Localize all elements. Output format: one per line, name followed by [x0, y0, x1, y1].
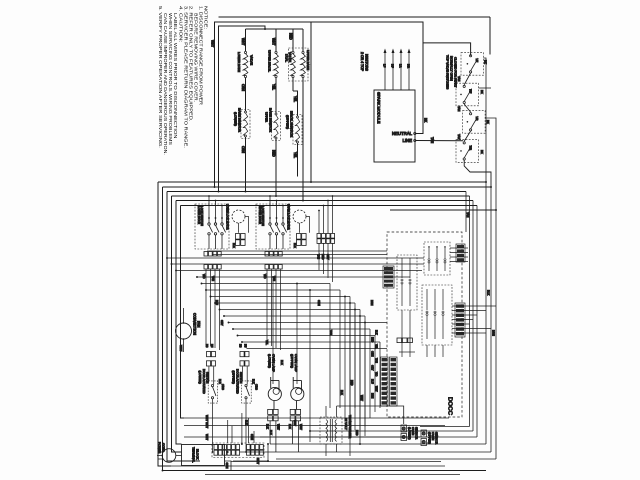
wire igniter2 down — [275, 139, 277, 196]
relay K2 — [397, 255, 417, 310]
wires middle connector down — [319, 244, 333, 283]
connector DOCC right mid — [455, 303, 465, 337]
connector lamp LOWER — [268, 409, 273, 414]
top valve switch LF — [461, 53, 484, 76]
svg-text:POWER: POWER — [158, 442, 162, 454]
junction valve bus — [264, 28, 266, 30]
lock motor LOWER — [226, 204, 249, 233]
power cord plug — [157, 442, 182, 462]
svg-text:CORD: CORD — [162, 443, 166, 453]
svg-text:OVEN: OVEN — [411, 427, 415, 435]
svg-text:BROIL IGNITOR: BROIL IGNITOR — [290, 111, 294, 138]
svg-text:WHT: WHT — [277, 424, 281, 430]
svg-text:GRY: GRY — [371, 365, 374, 371]
wire right bundle bottom corners — [240, 427, 496, 460]
svg-text:GRN: GRN — [225, 463, 229, 469]
lock motor UPPER — [287, 204, 310, 233]
svg-text:TAN: TAN — [457, 134, 461, 139]
svg-text:BAKE IGNITOR: BAKE IGNITOR — [269, 108, 273, 133]
svg-text:BLK: BLK — [269, 430, 273, 435]
svg-text:YEL: YEL — [293, 96, 297, 102]
wires DOCC right stubs — [450, 248, 496, 333]
wire line feed W2 — [219, 26, 266, 192]
connector strip B — [247, 445, 251, 450]
oven sensor UPPER — [421, 430, 438, 446]
labels misc bottom — [215, 300, 374, 436]
svg-text:NEUTRAL: NEUTRAL — [392, 131, 413, 136]
svg-text:WHT: WHT — [272, 38, 276, 45]
connector lock LOWER — [204, 252, 208, 257]
svg-text:BU: BU — [210, 344, 213, 348]
wire right bundle — [466, 182, 496, 459]
svg-text:YEL: YEL — [293, 152, 297, 158]
svg-text:RED: RED — [272, 150, 276, 157]
svg-text:WHT: WHT — [211, 40, 215, 47]
door actuated switch LOWER — [198, 344, 225, 453]
svg-text:RF: RF — [390, 64, 394, 68]
wires WHT horizontals — [184, 415, 449, 440]
wire dual valve joins — [292, 78, 294, 91]
svg-text:ORN: ORN — [241, 146, 245, 154]
wire bottom bus — [171, 444, 460, 475]
wire igniter1 down — [245, 137, 247, 192]
svg-text:BK: BK — [484, 60, 488, 64]
wire transformer to sensors — [337, 406, 404, 424]
igniter BAKE (LOWER) — [234, 108, 251, 139]
svg-text:DB: DB — [205, 344, 208, 348]
relay K1 — [424, 242, 450, 275]
svg-text:BLK: BLK — [266, 424, 270, 429]
svg-text:LOCK SWITCH: LOCK SWITCH — [261, 206, 265, 226]
connector DOCC bottom strips — [381, 357, 398, 406]
svg-text:GRY: GRY — [220, 320, 224, 326]
wires switch chain — [423, 43, 496, 210]
svg-text:TERMINAL: TERMINAL — [192, 447, 196, 463]
svg-text:FAN: FAN — [197, 321, 201, 328]
svg-text:IGNITORS: IGNITORS — [365, 54, 369, 72]
svg-text:ORG: ORG — [255, 384, 259, 390]
svg-text:(LOWER): (LOWER) — [198, 371, 202, 384]
svg-text:BRN: BRN — [371, 393, 374, 398]
svg-text:SPARK MODULE: SPARK MODULE — [377, 92, 382, 124]
svg-text:DUAL: DUAL — [285, 54, 289, 62]
relay K3 — [422, 285, 452, 345]
svg-text:RED: RED — [289, 33, 293, 40]
wire neutral feed W1 — [215, 22, 424, 187]
svg-text:TAN: TAN — [457, 106, 461, 111]
svg-text:WHT: WHT — [360, 395, 364, 401]
door lock switch LOWER — [195, 195, 229, 249]
valve UPPER BROIL — [268, 29, 279, 78]
svg-text:(UPPER): (UPPER) — [290, 354, 294, 368]
svg-text:TAN: TAN — [329, 330, 333, 335]
svg-text:LOWER LOCK MOTOR: LOWER LOCK MOTOR — [226, 204, 230, 230]
wire LINE to switches — [416, 140, 463, 142]
wire top line pair — [219, 16, 491, 18]
svg-text:CONVECTION: CONVECTION — [193, 313, 197, 336]
wire upper fan links — [207, 251, 387, 255]
svg-text:BRN: BRN — [492, 330, 496, 336]
svg-text:BK: BK — [480, 90, 484, 94]
svg-text:YEL: YEL — [265, 340, 269, 345]
svg-text:VIO: VIO — [263, 274, 267, 278]
svg-text:BU: BU — [244, 344, 247, 348]
svg-text:YEL: YEL — [272, 84, 276, 90]
svg-text:UPPER LOCK MOTOR: UPPER LOCK MOTOR — [287, 204, 291, 230]
notice text block — [158, 6, 208, 155]
igniter UPPER BAKE — [265, 108, 281, 141]
svg-text:BLK: BLK — [280, 360, 284, 365]
door lock switch UPPER — [256, 195, 290, 249]
svg-text:(UPPER): (UPPER) — [232, 371, 236, 384]
svg-text:OVEN: OVEN — [431, 432, 435, 440]
wires lamp LOWER down — [269, 421, 271, 444]
svg-text:TAN: TAN — [375, 358, 378, 363]
wire left drops from band — [158, 182, 486, 471]
wires middle connector up — [318, 195, 333, 233]
svg-text:VIO: VIO — [375, 372, 378, 376]
wire valve2 down — [275, 78, 277, 113]
svg-text:ORG: ORG — [221, 384, 225, 390]
svg-text:DOOR ACTUATED: DOOR ACTUATED — [235, 369, 239, 394]
svg-text:DOOR ACTUATED: DOOR ACTUATED — [202, 369, 206, 394]
svg-text:BLK: BLK — [232, 243, 236, 248]
svg-text:LOWER BAKE: LOWER BAKE — [237, 52, 241, 72]
top valve switch RF — [456, 83, 479, 106]
svg-text:12 VOLT: 12 VOLT — [344, 418, 348, 430]
svg-text:RED: RED — [350, 380, 354, 386]
svg-text:(UPPER): (UPPER) — [286, 115, 290, 129]
svg-text:(LOWER): (LOWER) — [268, 354, 272, 368]
valve DUAL UPPER BAKE — [285, 29, 311, 81]
svg-text:YEL: YEL — [375, 344, 378, 349]
svg-text:WHT: WHT — [241, 38, 245, 45]
svg-text:OVEN LAMP: OVEN LAMP — [294, 354, 298, 372]
svg-text:UPPER: UPPER — [265, 112, 269, 123]
node line terminal — [414, 139, 416, 141]
svg-text:(LOWER): (LOWER) — [234, 112, 238, 126]
svg-text:SENSOR: SENSOR — [414, 427, 418, 439]
svg-text:BK: BK — [480, 150, 484, 154]
svg-text:(UPPER): (UPPER) — [428, 432, 432, 444]
oven sensor LOWER — [401, 425, 418, 441]
wire valve top bus — [246, 28, 304, 30]
wire labels DOCC left — [371, 330, 378, 398]
svg-text:WHT: WHT — [205, 434, 209, 440]
svg-text:OVEN LAMP: OVEN LAMP — [272, 354, 276, 372]
wire bus band — [158, 182, 496, 210]
wires lock LOWER down — [202, 270, 220, 351]
wire GRN — [225, 461, 232, 471]
svg-text:RF: RF — [469, 89, 473, 93]
svg-text:LF: LF — [475, 59, 479, 63]
connector lock motor UPPER — [297, 234, 301, 240]
connector lock UPPER — [265, 252, 269, 257]
wire right drop — [310, 22, 312, 182]
wires lock UPPER down — [263, 270, 281, 351]
wire fanout band — [167, 258, 424, 436]
svg-text:BLK: BLK — [288, 424, 292, 429]
connector harness middle — [317, 234, 321, 239]
svg-text:SENSOR: SENSOR — [434, 432, 438, 444]
svg-text:RED: RED — [371, 337, 374, 342]
top valve switch RR — [456, 140, 479, 163]
svg-text:BRN: BRN — [370, 300, 374, 306]
wire lamp feeds — [273, 277, 350, 456]
convection fan motor — [176, 308, 201, 352]
svg-text:TAN: TAN — [430, 137, 434, 144]
wires lamp UPPER down — [292, 421, 294, 444]
wires into strip — [228, 413, 254, 443]
connector strip A — [214, 445, 218, 450]
connector DOCC left — [383, 266, 394, 288]
svg-text:BLK: BLK — [375, 330, 378, 335]
top valve switch LR — [463, 111, 486, 134]
node neutral terminal — [414, 132, 416, 134]
terminal strip dashed — [212, 443, 264, 458]
connector below K2 — [397, 338, 402, 343]
svg-text:LF: LF — [382, 64, 386, 68]
connector DOCC right top — [456, 244, 465, 262]
svg-text:WHT: WHT — [256, 458, 260, 464]
connector lock motor LOWER — [236, 234, 240, 240]
svg-text:BLK: BLK — [245, 420, 249, 425]
svg-text:BLU: BLU — [371, 379, 374, 384]
svg-text:WHT: WHT — [205, 422, 209, 428]
transformer 12V T1 — [320, 406, 352, 456]
valve LOWER BAKE — [237, 29, 254, 78]
spark module ignitor wires — [382, 49, 410, 91]
svg-text:UPPER BROIL: UPPER BROIL — [268, 50, 272, 72]
svg-text:NORMALLY OPEN: NORMALLY OPEN — [450, 56, 454, 81]
svg-text:5. VERIFY PROPER OPERATION AFT: 5. VERIFY PROPER OPERATION AFTER SERVICI… — [158, 6, 163, 148]
terminal block — [182, 445, 225, 466]
oven lamp LOWER — [268, 354, 282, 409]
svg-text:ORN: ORN — [241, 84, 245, 92]
spark module U1 — [374, 90, 415, 162]
svg-text:RED: RED — [355, 430, 359, 436]
igniter UPPER BROIL — [286, 111, 303, 145]
svg-text:LINE: LINE — [402, 138, 412, 143]
svg-text:DOCC: DOCC — [447, 397, 453, 415]
wires DOCC internal drops — [399, 310, 443, 357]
svg-text:TAN: TAN — [466, 212, 470, 217]
svg-text:BLOCK: BLOCK — [196, 449, 200, 460]
svg-text:TOP VALVE SWITCHES: TOP VALVE SWITCHES — [446, 55, 450, 89]
wire mid verticals extra — [340, 310, 365, 445]
connector lamp UPPER — [290, 409, 295, 414]
svg-text:LOCK SWITCH: LOCK SWITCH — [200, 206, 204, 226]
svg-text:BLK: BLK — [487, 290, 491, 295]
svg-text:2 OR 4 TOP: 2 OR 4 TOP — [360, 52, 364, 72]
svg-text:WHT: WHT — [205, 415, 209, 421]
svg-text:DB: DB — [238, 344, 241, 348]
svg-text:LR: LR — [398, 64, 402, 68]
svg-text:VIO: VIO — [202, 274, 206, 278]
wire valve1 to igniter — [245, 78, 247, 111]
svg-text:WHT: WHT — [299, 424, 303, 430]
svg-text:BLK: BLK — [340, 390, 344, 395]
svg-text:TRANSFORMER: TRANSFORMER — [348, 415, 352, 439]
svg-text:WHT: WHT — [179, 345, 183, 352]
door actuated switch UPPER — [232, 344, 259, 453]
svg-text:ORN: ORN — [371, 351, 374, 357]
svg-text:(LOWER): (LOWER) — [408, 427, 412, 440]
svg-text:RR: RR — [406, 64, 410, 68]
svg-text:BK: BK — [486, 120, 490, 124]
svg-text:ORN: ORN — [317, 300, 321, 306]
svg-text:WHT: WHT — [375, 386, 378, 392]
svg-text:BLK: BLK — [293, 243, 297, 248]
oven lamp UPPER — [290, 354, 304, 409]
svg-text:VALVE: VALVE — [250, 55, 254, 65]
svg-text:BAKE IGNITOR: BAKE IGNITOR — [238, 108, 242, 133]
wire igniter3 down — [297, 143, 299, 177]
svg-text:TAN: TAN — [457, 76, 461, 81]
control DOCC dashed box — [387, 232, 462, 417]
